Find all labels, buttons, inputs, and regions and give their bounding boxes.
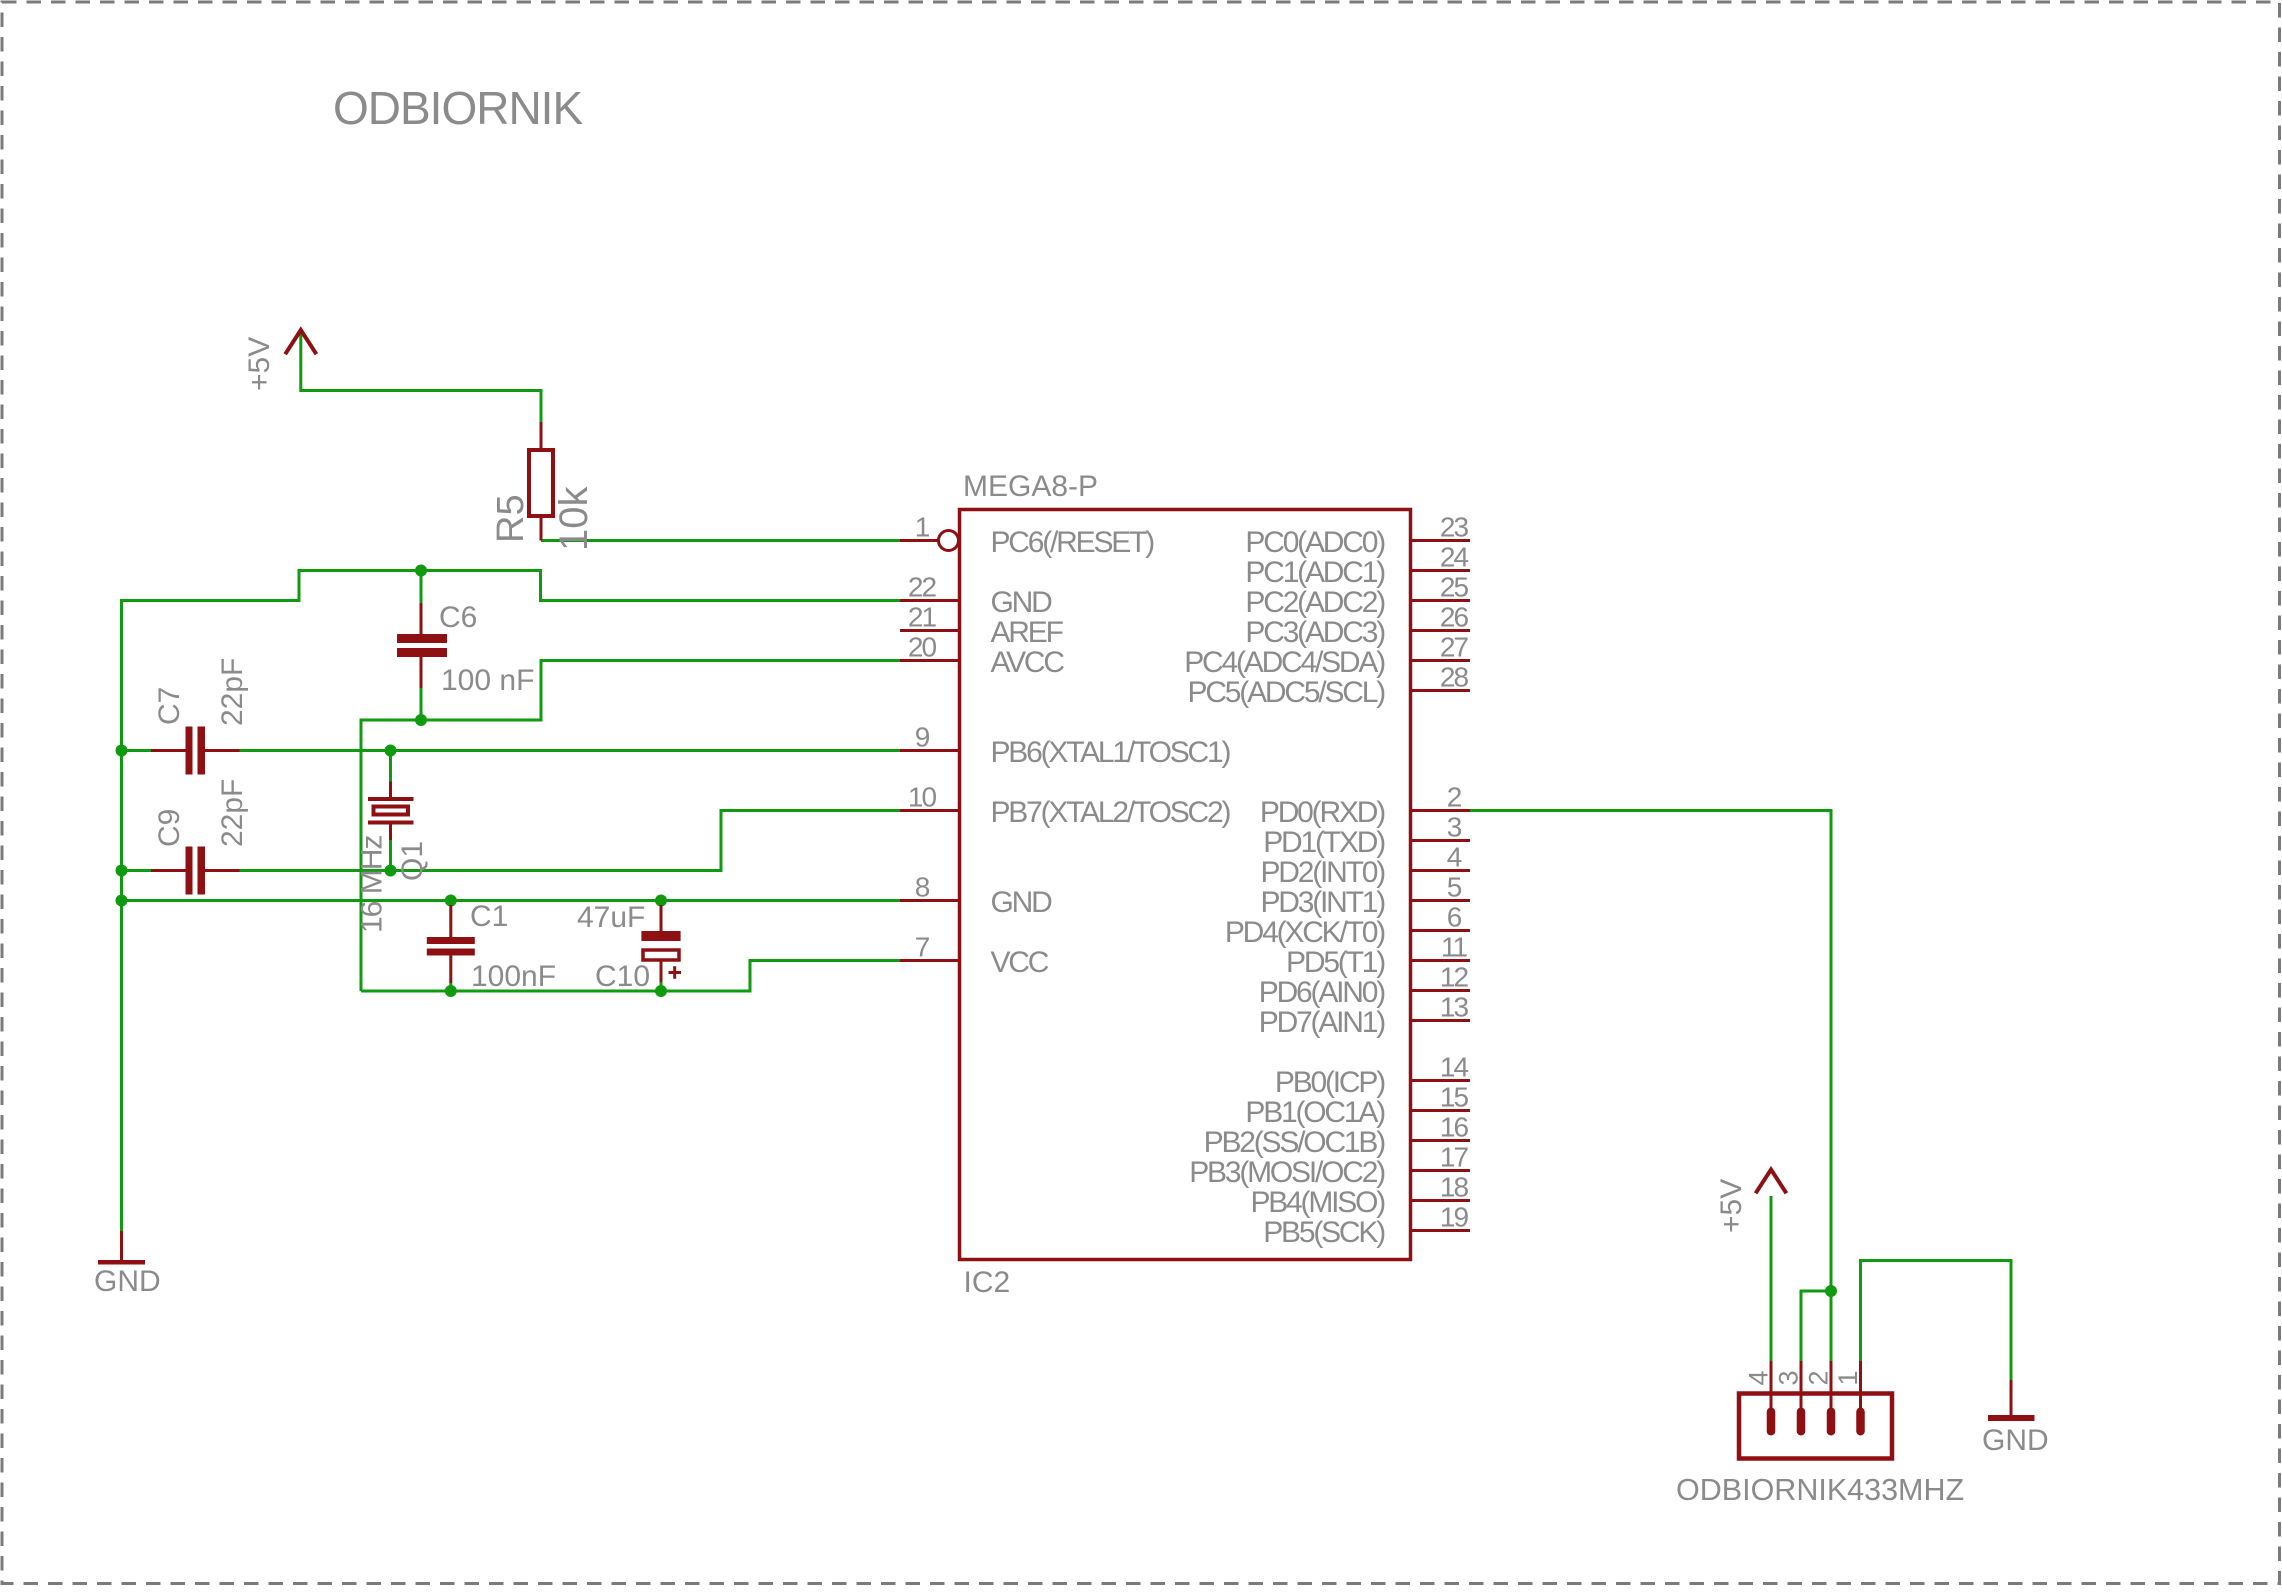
- svg-text:47uF: 47uF: [577, 901, 645, 934]
- svg-text:2: 2: [1447, 782, 1462, 813]
- svg-text:PB4(MISO): PB4(MISO): [1250, 1186, 1385, 1219]
- svg-text:+5V: +5V: [243, 337, 276, 391]
- svg-text:R5: R5: [490, 494, 532, 543]
- svg-text:13: 13: [1440, 992, 1469, 1023]
- svg-text:PB5(SCK): PB5(SCK): [1263, 1216, 1385, 1249]
- svg-text:11: 11: [1441, 932, 1467, 963]
- svg-text:MEGA8-P: MEGA8-P: [963, 470, 1098, 503]
- svg-text:Q1: Q1: [396, 841, 429, 881]
- svg-text:+5V: +5V: [1715, 1179, 1748, 1233]
- svg-text:16 MHz: 16 MHz: [356, 836, 389, 933]
- svg-text:GND: GND: [991, 886, 1053, 919]
- svg-text:PC5(ADC5/SCL): PC5(ADC5/SCL): [1188, 676, 1386, 709]
- svg-text:10: 10: [908, 782, 937, 813]
- svg-text:19: 19: [1440, 1202, 1469, 1233]
- svg-text:PD2(INT0): PD2(INT0): [1260, 856, 1385, 889]
- svg-text:GND: GND: [94, 1265, 161, 1298]
- svg-text:PC6(/RESET): PC6(/RESET): [991, 526, 1155, 559]
- svg-text:25: 25: [1440, 572, 1469, 603]
- svg-text:17: 17: [1440, 1142, 1469, 1173]
- svg-text:AREF: AREF: [991, 616, 1064, 649]
- svg-text:PD6(AIN0): PD6(AIN0): [1259, 976, 1385, 1009]
- svg-text:C6: C6: [439, 601, 477, 634]
- svg-text:PB7(XTAL2/TOSC2): PB7(XTAL2/TOSC2): [991, 796, 1231, 829]
- svg-text:6: 6: [1447, 902, 1462, 933]
- svg-text:15: 15: [1440, 1082, 1469, 1113]
- svg-text:PB2(SS/OC1B): PB2(SS/OC1B): [1204, 1126, 1386, 1159]
- svg-text:3: 3: [1774, 1370, 1804, 1385]
- svg-text:PB0(ICP): PB0(ICP): [1275, 1066, 1385, 1099]
- svg-text:PD4(XCK/T0): PD4(XCK/T0): [1225, 916, 1385, 949]
- svg-text:PD5(T1): PD5(T1): [1286, 946, 1385, 979]
- svg-text:20: 20: [908, 632, 937, 663]
- svg-text:PC3(ADC3): PC3(ADC3): [1245, 616, 1385, 649]
- svg-text:100 nF: 100 nF: [441, 664, 534, 697]
- svg-text:100nF: 100nF: [471, 960, 556, 993]
- svg-text:12: 12: [1440, 962, 1469, 993]
- svg-text:27: 27: [1440, 632, 1469, 663]
- svg-text:4: 4: [1744, 1370, 1774, 1385]
- svg-text:C1: C1: [470, 900, 508, 933]
- svg-text:AVCC: AVCC: [991, 646, 1065, 679]
- svg-text:GND: GND: [991, 586, 1053, 619]
- svg-text:28: 28: [1440, 662, 1469, 693]
- svg-text:PC1(ADC1): PC1(ADC1): [1245, 556, 1385, 589]
- svg-text:8: 8: [915, 872, 930, 903]
- svg-text:PB3(MOSI/OC2): PB3(MOSI/OC2): [1189, 1156, 1385, 1189]
- svg-text:PC0(ADC0): PC0(ADC0): [1245, 526, 1385, 559]
- svg-text:22: 22: [908, 572, 937, 603]
- svg-text:PC2(ADC2): PC2(ADC2): [1245, 586, 1385, 619]
- svg-text:1: 1: [915, 512, 930, 543]
- svg-text:PD1(TXD): PD1(TXD): [1263, 826, 1385, 859]
- svg-text:7: 7: [915, 932, 930, 963]
- svg-text:PD3(INT1): PD3(INT1): [1260, 886, 1385, 919]
- svg-text:23: 23: [1440, 512, 1469, 543]
- svg-text:22pF: 22pF: [216, 779, 249, 847]
- svg-text:PD7(AIN1): PD7(AIN1): [1259, 1006, 1385, 1039]
- svg-text:5: 5: [1447, 872, 1462, 903]
- svg-text:PD0(RXD): PD0(RXD): [1260, 796, 1385, 829]
- svg-text:PB1(OC1A): PB1(OC1A): [1245, 1096, 1385, 1129]
- svg-text:GND: GND: [1982, 1424, 2049, 1457]
- svg-text:14: 14: [1440, 1052, 1469, 1083]
- svg-text:4: 4: [1447, 842, 1462, 873]
- svg-text:C7: C7: [153, 687, 186, 725]
- svg-text:2: 2: [1804, 1370, 1834, 1385]
- svg-text:C10: C10: [595, 960, 650, 993]
- svg-text:26: 26: [1440, 602, 1469, 633]
- svg-text:10k: 10k: [552, 486, 596, 551]
- svg-text:ODBIORNIK433MHZ: ODBIORNIK433MHZ: [1676, 1473, 1964, 1507]
- svg-text:PB6(XTAL1/TOSC1): PB6(XTAL1/TOSC1): [991, 736, 1231, 769]
- svg-text:18: 18: [1440, 1172, 1469, 1203]
- svg-text:1: 1: [1833, 1370, 1863, 1385]
- svg-text:22pF: 22pF: [216, 658, 249, 726]
- svg-text:16: 16: [1440, 1112, 1469, 1143]
- svg-text:ODBIORNIK: ODBIORNIK: [333, 82, 583, 134]
- svg-text:24: 24: [1440, 542, 1469, 573]
- svg-text:9: 9: [915, 722, 930, 753]
- svg-text:21: 21: [908, 602, 937, 633]
- svg-text:PC4(ADC4/SDA): PC4(ADC4/SDA): [1184, 646, 1385, 679]
- svg-text:3: 3: [1447, 812, 1462, 843]
- svg-text:C9: C9: [153, 809, 186, 847]
- svg-text:IC2: IC2: [964, 1266, 1011, 1299]
- svg-text:VCC: VCC: [991, 946, 1049, 979]
